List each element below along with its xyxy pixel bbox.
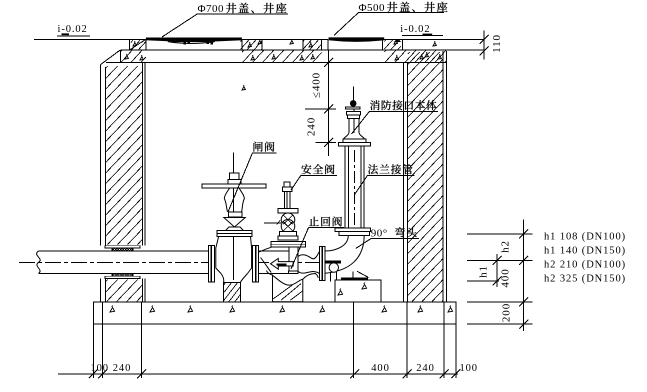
svg-text:h2 325 (DN150): h2 325 (DN150) xyxy=(544,274,626,285)
svg-text:100: 100 xyxy=(460,363,478,374)
svg-text:110: 110 xyxy=(491,34,503,53)
svg-text:400: 400 xyxy=(371,363,389,374)
svg-text:200: 200 xyxy=(501,303,513,322)
svg-text:h1: h1 xyxy=(478,265,490,278)
svg-text:240: 240 xyxy=(416,363,434,374)
svg-text:h2: h2 xyxy=(500,240,512,253)
svg-text:400: 400 xyxy=(500,268,512,287)
svg-text:240: 240 xyxy=(306,117,318,136)
svg-text:90°: 90° xyxy=(371,227,388,239)
svg-text:h1 108 (DN100): h1 108 (DN100) xyxy=(544,232,626,243)
svg-text:i-0.02: i-0.02 xyxy=(58,24,88,35)
svg-text:h1 140 (DN150): h1 140 (DN150) xyxy=(544,246,626,257)
svg-text:≤400: ≤400 xyxy=(311,72,323,98)
svg-text:Φ700: Φ700 xyxy=(198,3,225,15)
svg-text:h2 210 (DN100): h2 210 (DN100) xyxy=(544,260,626,271)
svg-text:100: 100 xyxy=(91,363,109,374)
svg-text:i-0.02: i-0.02 xyxy=(400,24,430,35)
svg-text:240: 240 xyxy=(113,363,131,374)
